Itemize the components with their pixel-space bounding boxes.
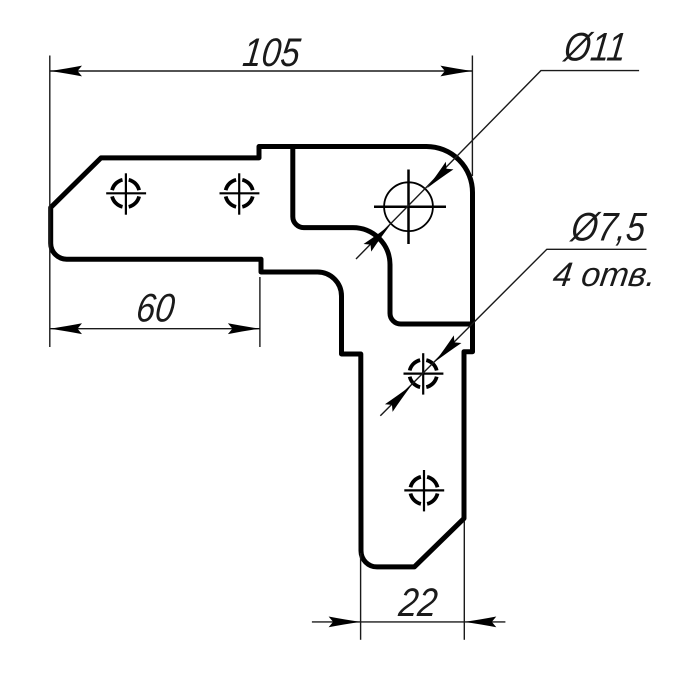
svg-text:22: 22 — [396, 579, 440, 624]
svg-text:Ø11: Ø11 — [560, 24, 629, 69]
extension line 22-right (x=464.3) — [463, 521, 465, 640]
svg-text:4 отв.: 4 отв. — [551, 256, 659, 294]
hole 4 (vertical arm, bottom) — [404, 470, 444, 511]
extension line right (x=472.4) — [471, 56, 473, 177]
dimension line 60 — [50, 328, 260, 330]
big hole (corner, thin circle) — [374, 170, 446, 245]
hole A (left arm, left) — [106, 173, 146, 214]
part outline: L-shaped corner bracket — [51, 147, 473, 567]
inner contour of corner recess — [293, 145, 473, 325]
extension line left (x=50) — [49, 56, 51, 348]
svg-text:60: 60 — [134, 285, 177, 330]
leader Ø7,5 / 4 отв. — [380, 249, 646, 415]
svg-text:105: 105 — [241, 30, 303, 75]
extension line for 60 (x=259.9) — [259, 277, 261, 347]
hole 3 (vertical arm, top) — [404, 353, 444, 394]
hole B (left arm, right) — [220, 173, 260, 214]
extension line 22-left (x=360.6) — [360, 553, 362, 640]
svg-text:Ø7,5: Ø7,5 — [567, 204, 648, 249]
dimension line 105 — [50, 70, 472, 72]
leader Ø11 — [356, 71, 639, 259]
dimension line 22 (arrows outside) — [312, 621, 506, 623]
